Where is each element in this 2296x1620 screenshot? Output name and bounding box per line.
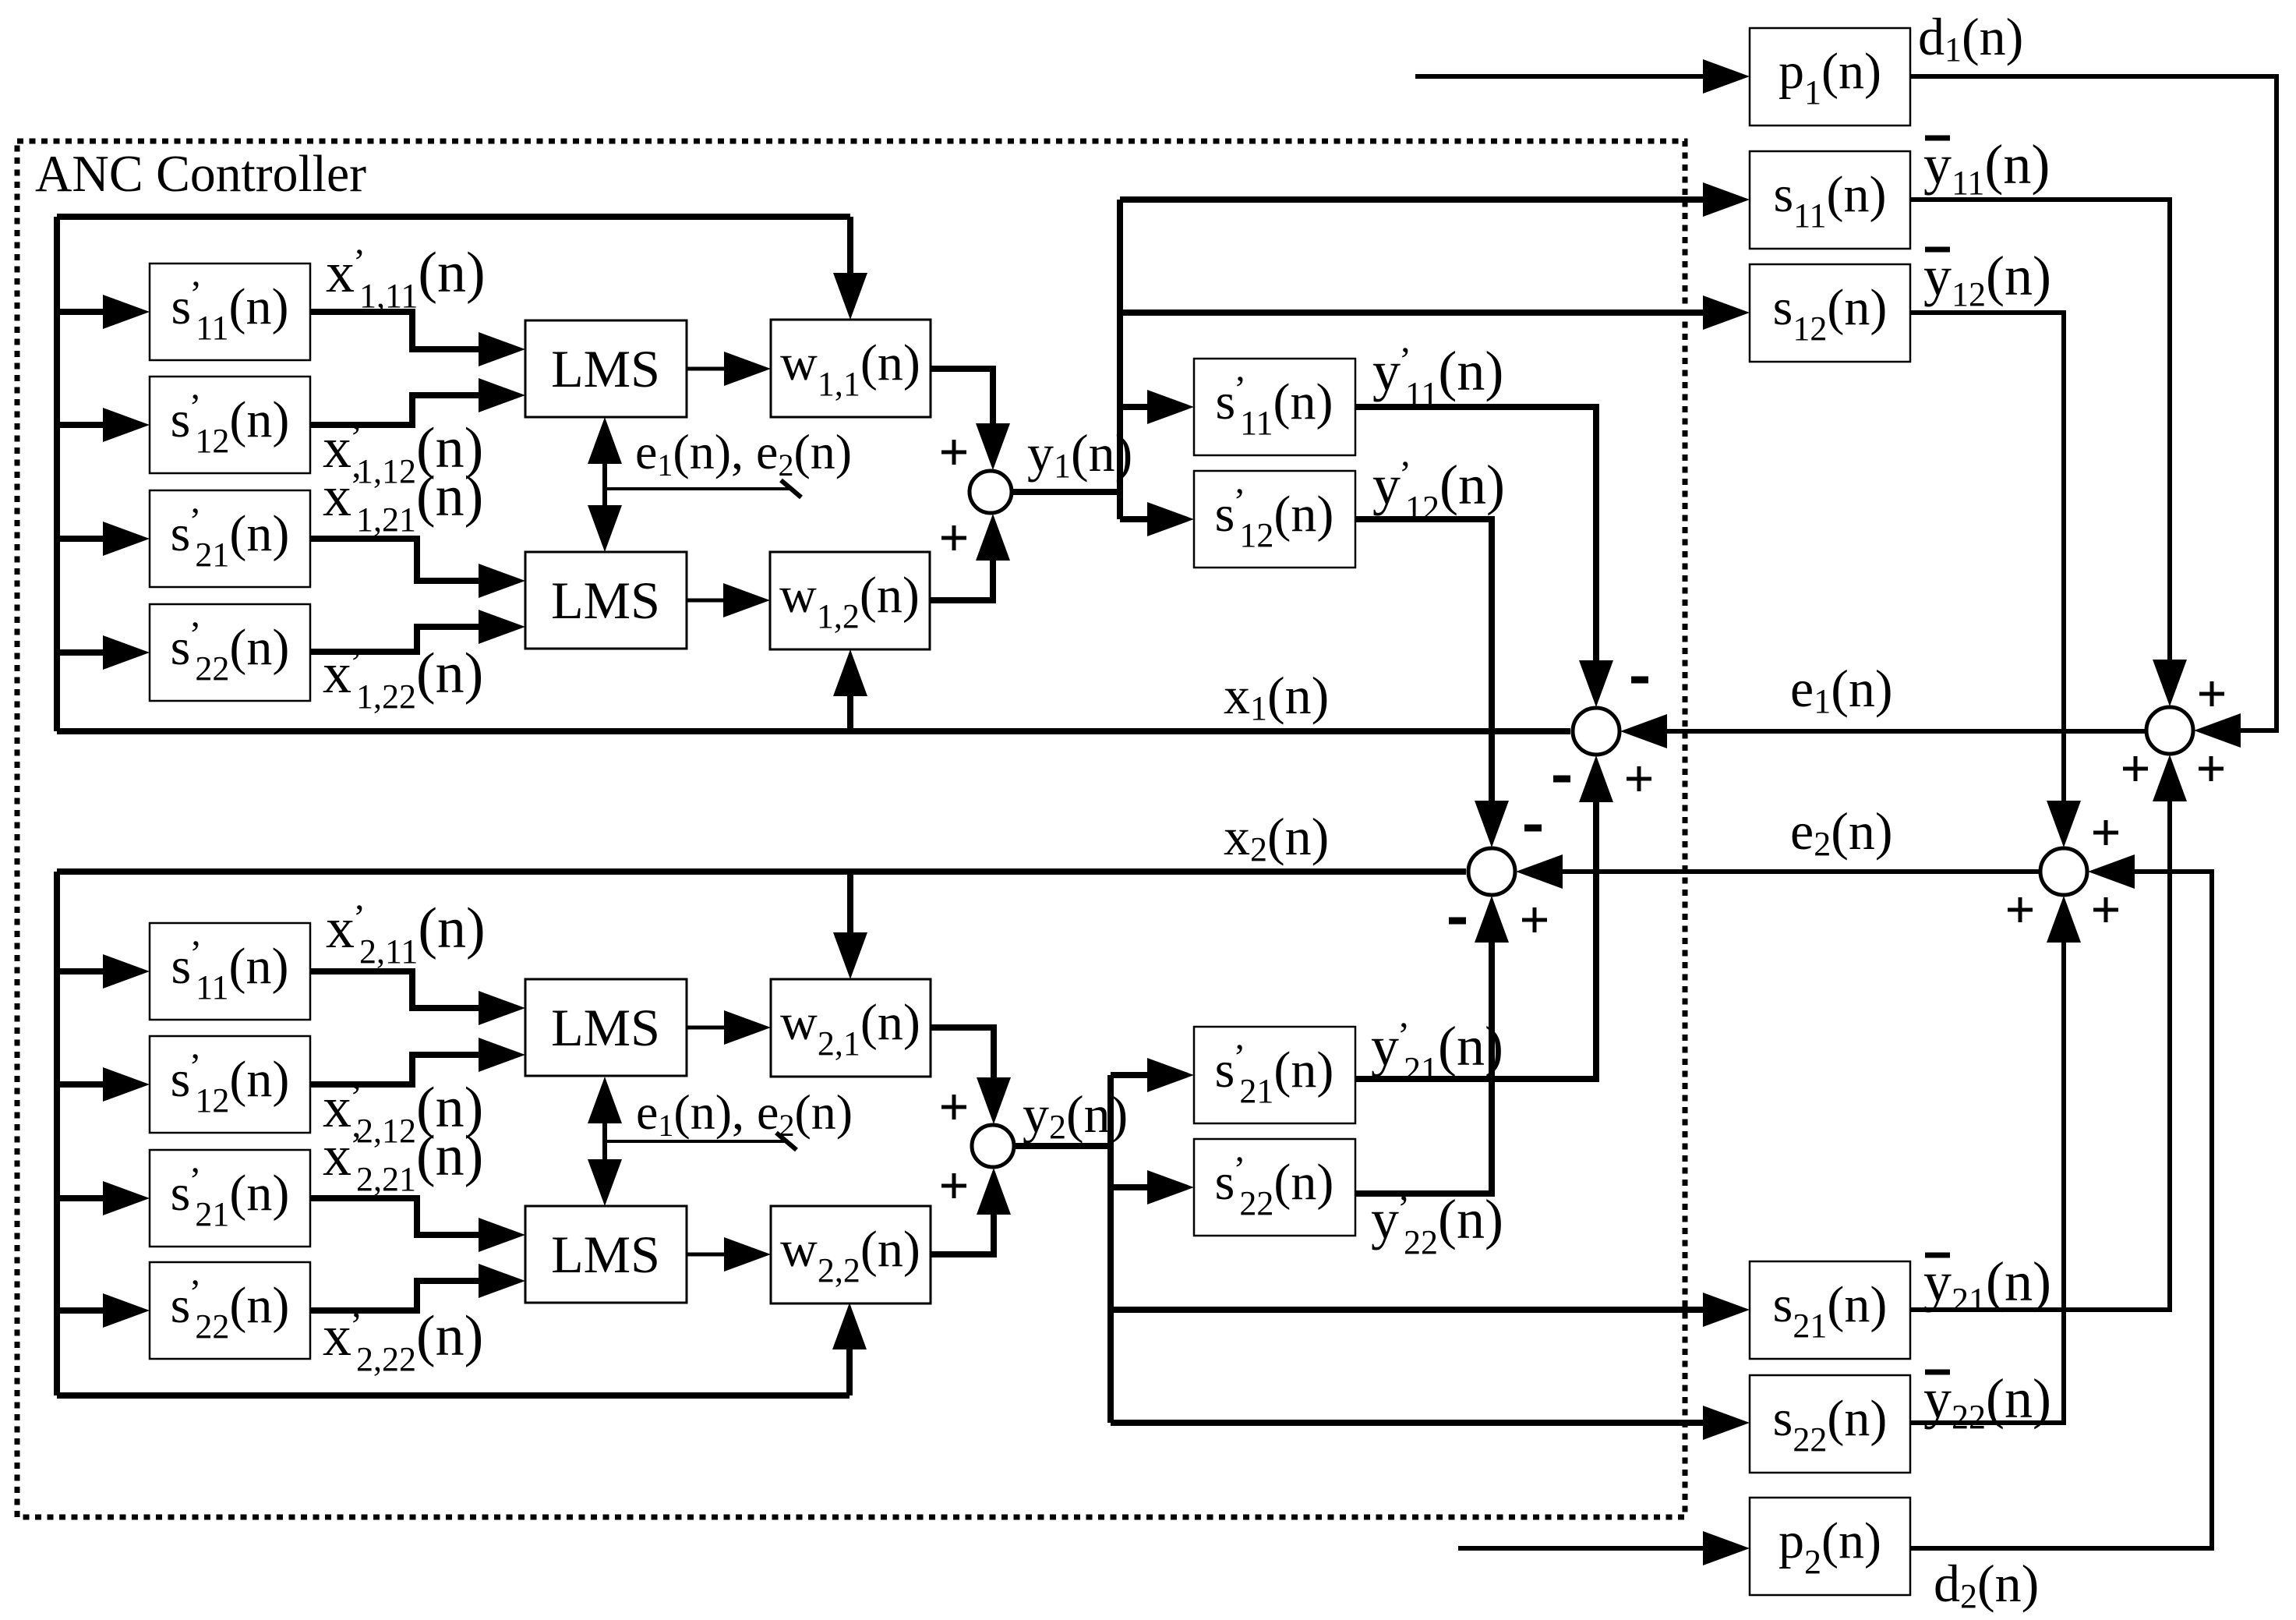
svg-text:d2(n): d2(n) <box>1934 1554 2039 1615</box>
svg-text:x1(n): x1(n) <box>1224 666 1329 727</box>
svg-text:y2(n): y2(n) <box>1023 1084 1128 1146</box>
svg-text:y11(n): y11(n) <box>1923 133 2050 202</box>
svg-text:x2(n): x2(n) <box>1224 807 1329 868</box>
svg-text:ANC Controller: ANC Controller <box>35 145 366 203</box>
svg-text:LMS: LMS <box>551 1225 660 1284</box>
svg-text:y1(n): y1(n) <box>1027 423 1132 485</box>
svg-text:LMS: LMS <box>551 571 660 630</box>
svg-text:e1(n): e1(n) <box>1790 659 1892 720</box>
svg-text:y12(n): y12(n) <box>1923 245 2051 313</box>
svg-text:y21(n): y21(n) <box>1923 1250 2051 1319</box>
svg-text:LMS: LMS <box>551 339 660 398</box>
svg-text:d1(n): d1(n) <box>1918 7 2023 69</box>
svg-text:y’11(n): y’11(n) <box>1372 340 1503 413</box>
svg-text:e2(n): e2(n) <box>1790 801 1892 863</box>
svg-text:y22(n): y22(n) <box>1923 1367 2051 1436</box>
svg-text:LMS: LMS <box>551 998 660 1057</box>
